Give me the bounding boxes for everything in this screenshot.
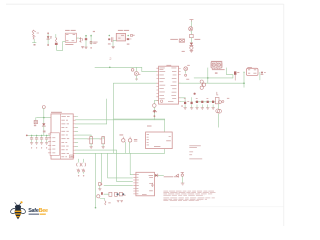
capacitor C at x86 <box>85 35 88 49</box>
rail wire y135 <box>27 134 51 136</box>
buzzer SP1 <box>216 104 222 127</box>
vertical net x106 <box>106 99 108 124</box>
driver IC U5 box <box>136 172 155 196</box>
power flag at x183 <box>181 172 184 185</box>
IC U1 dashed box <box>63 30 80 45</box>
junction <box>43 117 45 119</box>
capacitor bank C10-C13 <box>30 135 48 148</box>
trimmer with X <box>179 39 184 42</box>
junction dots on rail <box>31 135 32 136</box>
bus vertical x101 <box>100 153 102 182</box>
junction right of U2 <box>127 35 129 37</box>
J1 corner sub-label <box>70 155 74 158</box>
wire loop right upper <box>164 119 166 132</box>
wire loop top <box>114 118 165 120</box>
svg-text:SafeBee: SafeBee <box>28 208 48 214</box>
wire relay right vertical <box>227 68 233 78</box>
inner pin labels left <box>52 137 55 153</box>
module U2 box <box>116 33 125 41</box>
wire horizontal <box>37 117 52 119</box>
wire from S1 down <box>32 39 36 43</box>
RF module U6 title <box>147 126 152 127</box>
component chain x101 <box>98 183 102 191</box>
module M2 title <box>247 66 252 69</box>
label 7 <box>215 92 218 95</box>
wire U2 left to ground <box>113 41 116 47</box>
logo bee stripes <box>15 211 22 212</box>
isolated red dot <box>194 93 196 95</box>
logo bee antenna tip <box>20 201 22 203</box>
bus vertical x116 <box>117 150 133 181</box>
wire x130 to U5 <box>130 153 133 174</box>
divider <box>60 114 62 159</box>
wire M2 left down <box>243 72 245 87</box>
U6 pin labels <box>147 134 171 147</box>
wire y185 <box>104 185 133 187</box>
diode at x44 <box>42 118 45 136</box>
label <box>182 51 185 52</box>
resistor right of U2 <box>130 35 132 37</box>
relay K1 bottom label <box>212 69 225 70</box>
junction circle on wire <box>131 69 134 72</box>
relay K1 <box>211 62 222 69</box>
crystal cluster circles <box>200 80 206 89</box>
inner pin labels right part <box>61 116 69 157</box>
diode D1 vertical column <box>47 32 52 45</box>
U5 left pin stubs <box>134 175 136 194</box>
module M2 box <box>246 68 258 75</box>
label left <box>170 39 178 40</box>
inner box <box>50 133 59 156</box>
pushbutton S2 <box>184 65 190 80</box>
buzzer circle small <box>218 101 221 104</box>
wire net2 corner to U3 <box>142 67 157 71</box>
logo tagline <box>29 214 39 215</box>
ground at x113 <box>112 47 115 49</box>
frame right edge <box>283 4 285 226</box>
mark below S1 <box>34 44 36 46</box>
notes paragraph <box>163 191 215 201</box>
bus vertical x107 <box>108 153 133 178</box>
pin1 circle <box>160 100 162 102</box>
arrow mark <box>243 71 245 73</box>
fuse F1 <box>55 34 63 50</box>
MCU U3 left pin stubs <box>157 68 159 100</box>
inductor L at x91 <box>90 31 98 49</box>
wire <box>190 22 192 27</box>
transistor Q4 <box>134 67 140 80</box>
capacitor C at x36 <box>34 118 38 127</box>
wire relay left vertical <box>207 68 209 83</box>
capacitor row C20-C25 <box>181 97 216 109</box>
crystal Y1 circles <box>119 134 137 153</box>
regulator Q at x80 <box>79 37 82 42</box>
junction <box>243 82 245 84</box>
MCU U3 pin labels <box>159 68 176 102</box>
junction dot <box>207 77 209 79</box>
wire x113 vertical <box>113 83 115 153</box>
wire stem <box>43 109 45 118</box>
capacitor C at x109 <box>108 35 111 45</box>
MCU U3 right pin stubs <box>179 69 181 102</box>
svg-text:2: 2 <box>109 57 111 61</box>
relay K1 title <box>211 61 222 62</box>
frame top edge <box>6 3 284 5</box>
U5 pin labels <box>136 174 153 194</box>
motor winding W1 <box>77 159 81 176</box>
power flag VCC top-right chain <box>190 20 194 22</box>
wire <box>190 38 192 43</box>
U5 right pin diode <box>151 174 178 187</box>
component box R <box>190 34 194 37</box>
wire y83 long rail <box>179 82 244 84</box>
motor winding W2 <box>82 159 86 176</box>
resistor R4 <box>100 137 105 149</box>
wire y83 to U3 <box>114 82 157 84</box>
bus vertical x95 <box>95 153 97 207</box>
module U2 title <box>118 30 123 31</box>
logo bee body <box>15 208 22 219</box>
MCU U3 box <box>159 66 179 104</box>
bottom cluster circle comp <box>97 192 111 205</box>
junction <box>109 67 111 69</box>
wire M2 right down <box>259 72 261 80</box>
logo bee head <box>15 205 21 209</box>
component circle <box>190 46 193 49</box>
supply circle P1 <box>42 106 45 109</box>
ground <box>190 50 193 52</box>
RF module U6 box <box>146 132 173 149</box>
MCU U3 title <box>166 64 171 67</box>
capacitor at x112 <box>111 37 113 41</box>
end dot <box>95 207 97 209</box>
left pins <box>48 134 51 153</box>
wire loop right lower <box>164 149 166 154</box>
diode D4 <box>261 72 266 75</box>
rail end dot <box>26 135 28 137</box>
resistor R3 <box>88 135 93 149</box>
ground for Q <box>81 46 84 48</box>
buzzer driver box <box>215 98 219 104</box>
bottom cluster comps row <box>104 192 126 202</box>
switch S1 <box>32 30 39 39</box>
logo bee antennae <box>15 202 22 205</box>
logo bee left wing <box>10 207 18 214</box>
connector J1 right pin wires <box>73 117 75 154</box>
title block line <box>170 206 284 208</box>
wire y78 <box>194 77 233 79</box>
transistor Q3 <box>189 27 193 31</box>
logo bee right wing <box>18 207 26 214</box>
cap blob right of U2 <box>127 38 130 40</box>
connector J1 outer box <box>51 114 73 159</box>
wire net2 horizontal <box>95 66 142 68</box>
RF notes text block <box>189 145 202 159</box>
label right <box>195 39 201 40</box>
transistor chain from U3 pin <box>153 100 159 119</box>
diode near relay <box>215 71 240 80</box>
wire <box>190 31 192 34</box>
connector J1 title <box>51 112 62 113</box>
diode D3 <box>190 43 193 46</box>
